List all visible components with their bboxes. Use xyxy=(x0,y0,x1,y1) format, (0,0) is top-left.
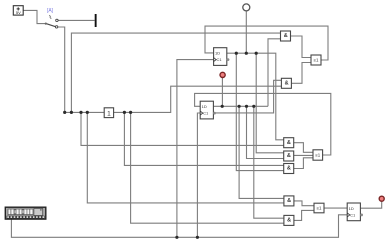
svg-text:1D: 1D xyxy=(215,51,220,56)
svg-text:5V: 5V xyxy=(16,10,21,15)
svg-text:≥1: ≥1 xyxy=(314,58,319,63)
svg-text:&: & xyxy=(287,198,291,204)
svg-text:≥1: ≥1 xyxy=(315,153,320,158)
svg-text:&: & xyxy=(287,140,291,146)
svg-text:&: & xyxy=(285,81,289,87)
svg-text:≥1: ≥1 xyxy=(317,206,322,211)
svg-text:1D: 1D xyxy=(349,206,354,211)
svg-text:[A]: [A] xyxy=(47,8,54,14)
svg-text:1: 1 xyxy=(107,110,111,117)
svg-text:C1: C1 xyxy=(203,111,209,116)
svg-text:&: & xyxy=(287,166,291,172)
svg-text:&: & xyxy=(284,33,288,39)
svg-text:1D: 1D xyxy=(202,104,207,109)
svg-text:&: & xyxy=(287,218,291,224)
svg-text:C1: C1 xyxy=(217,57,223,62)
svg-text:&: & xyxy=(287,153,291,159)
svg-text:C1: C1 xyxy=(350,213,356,218)
